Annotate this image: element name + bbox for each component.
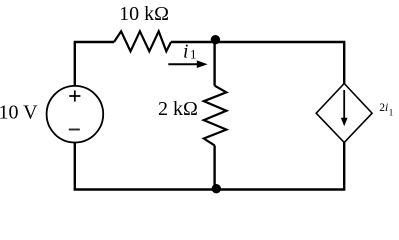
arrow inside current source <box>343 90 345 120</box>
current arrow i1 <box>168 63 199 65</box>
wire top-middle: resistor R1 to node A <box>171 41 215 43</box>
svg-text:1: 1 <box>190 46 197 61</box>
svg-text:10 kΩ: 10 kΩ <box>119 3 169 25</box>
svg-text:1: 1 <box>389 108 394 118</box>
wire middle-bottom: resistor R2 to node B <box>213 145 215 189</box>
voltage source V1 (circle) <box>47 86 104 143</box>
svg-text:i: i <box>183 41 188 62</box>
plus sign <box>69 90 80 101</box>
svg-text:i: i <box>385 101 388 114</box>
svg-text:10 V: 10 V <box>0 102 38 124</box>
resistor R1 10 kOhm (horizontal zigzag) <box>114 31 171 51</box>
dependent current source U1 (diamond) <box>316 84 372 143</box>
node A (top junction dot) <box>211 35 220 44</box>
wire top-left: from left corner to resistor R1 <box>75 42 114 86</box>
resistor R2 2 kOhm (vertical zigzag) <box>204 86 227 146</box>
wire middle-top: node A down to resistor R2 <box>213 42 215 86</box>
node B (bottom junction dot) <box>212 184 221 193</box>
svg-text:2 kΩ: 2 kΩ <box>158 98 198 120</box>
minus sign <box>69 129 80 131</box>
wire top-right: node A to right corner, down to current source <box>215 42 344 84</box>
wire left-bottom: voltage source to bottom-left corner <box>75 143 216 190</box>
wire bottom-right: node B to bottom-right corner up to current source <box>216 143 344 190</box>
